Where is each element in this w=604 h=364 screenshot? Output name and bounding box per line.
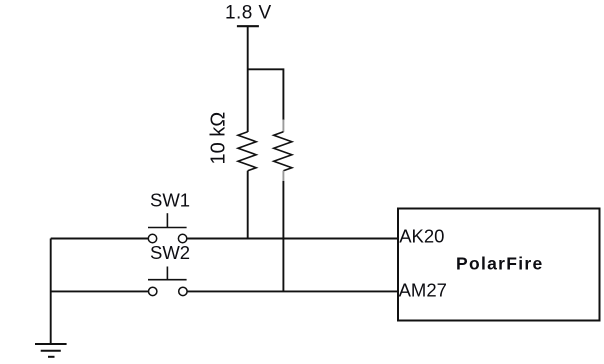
switch SW2 left contact	[149, 287, 157, 295]
switch SW1 left contact	[148, 234, 156, 242]
wire R2 top lead (gray)	[282, 120, 284, 133]
power rail 1.8V bar	[237, 25, 259, 27]
wire R2 bottom lead (gray)	[282, 171, 284, 181]
svg-text:AK20: AK20	[399, 226, 444, 247]
FPGA U1 PolarFire box	[398, 209, 600, 321]
svg-text:SW1: SW1	[150, 190, 190, 211]
svg-text:AM27: AM27	[399, 280, 447, 301]
switch SW1 actuator stub	[166, 213, 168, 227]
switch SW2 actuator stub	[166, 267, 168, 280]
wire R1 bottom lead	[247, 171, 249, 239]
svg-text:1.8 V: 1.8 V	[225, 3, 272, 24]
svg-text:PolarFire: PolarFire	[456, 254, 544, 274]
svg-text:10 kΩ: 10 kΩ	[208, 112, 230, 165]
switch SW2 right contact	[179, 287, 187, 295]
ground	[35, 344, 67, 357]
switch SW1 actuator bar	[148, 227, 187, 229]
switch SW2 actuator bar	[148, 279, 187, 281]
switch SW1 right contact	[178, 234, 186, 242]
wire branch to R2	[248, 69, 284, 120]
svg-text:SW2: SW2	[150, 242, 190, 263]
resistor R2	[274, 132, 292, 171]
wire SW2 to AM27 pin	[187, 290, 398, 292]
resistor R1	[238, 132, 256, 171]
wire R2 lead to AM27 net	[282, 181, 284, 291]
wire left rail to SW2	[51, 290, 149, 292]
wire power stem	[247, 26, 249, 132]
wire SW1 to AK20 pin	[187, 238, 398, 240]
wire left rail to SW1	[51, 238, 149, 240]
wire left ground rail	[50, 239, 52, 345]
